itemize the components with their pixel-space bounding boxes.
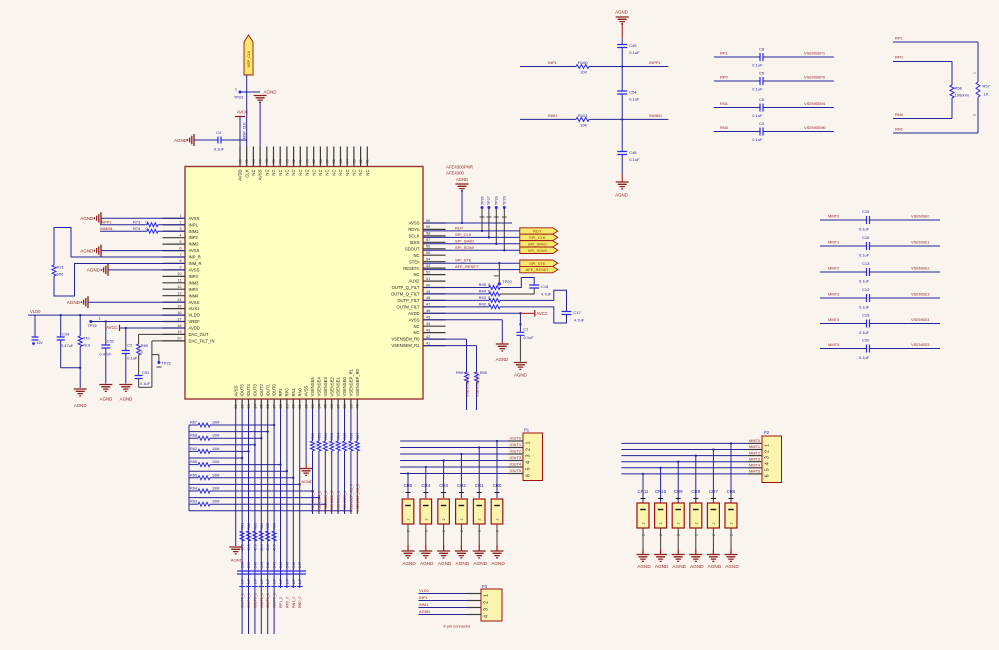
svg-text:2: 2 (484, 601, 490, 604)
wire pin31 RN0 column (299, 410, 301, 589)
capacitor C19 0.1uF row MMT4 (820, 323, 867, 325)
diode CR10 (659, 467, 661, 469)
svg-text:RP1: RP1 (720, 51, 729, 56)
svg-text:C39: C39 (247, 562, 251, 569)
svg-text:C16: C16 (862, 235, 870, 240)
wire VLD0 to P3 pin 1 (419, 593, 468, 595)
svg-text:RN1: RN1 (720, 101, 729, 106)
svg-text:MMT2: MMT2 (749, 450, 760, 455)
svg-text:VLD0: VLD0 (419, 588, 430, 593)
svg-text:MMT5: MMT5 (749, 469, 760, 474)
svg-text:INM3: INM3 (189, 280, 200, 285)
svg-text:R45: R45 (479, 282, 487, 287)
svg-text:C42: C42 (266, 562, 270, 569)
svg-text:RN1_0: RN1_0 (292, 597, 296, 608)
svg-text:1nF: 1nF (253, 579, 257, 585)
svg-text:AFE_RESET: AFE_RESET (526, 267, 550, 272)
svg-text:44: 44 (426, 322, 430, 326)
svg-text:TP28: TP28 (495, 196, 499, 205)
svg-text:VSENSE0: VSENSE0 (911, 214, 930, 219)
resistor R98 0 on VSENSEM_R1 (423, 345, 477, 347)
svg-text:20: 20 (177, 337, 181, 341)
svg-text:VSENSE2: VSENSE2 (911, 266, 930, 271)
svg-text:AUX1: AUX1 (189, 306, 201, 311)
svg-text:78: 78 (252, 159, 256, 163)
svg-text:49.9: 49.9 (241, 544, 245, 551)
svg-text:47: 47 (426, 303, 430, 307)
resistor R58 100ohm between RP0 and RN0 (951, 62, 953, 86)
svg-text:AVDD: AVDD (238, 170, 243, 181)
svg-text:1nF: 1nF (266, 579, 270, 585)
svg-text:C38: C38 (241, 562, 245, 569)
svg-text:MMT1: MMT1 (828, 240, 840, 245)
resistor R69 0 and capacitor C51 0.1uF loop on DAC pins (139, 333, 185, 335)
svg-text:72: 72 (292, 159, 296, 163)
svg-text:VSENSE4: VSENSE4 (317, 377, 322, 397)
svg-text:49.9: 49.9 (273, 544, 277, 551)
svg-text:CR1: CR1 (475, 483, 484, 488)
svg-text:10M: 10M (212, 434, 219, 438)
svg-text:VSENSE3: VSENSE3 (323, 377, 328, 397)
ground AGND below C1 (514, 363, 527, 370)
svg-text:10M: 10M (212, 421, 219, 425)
svg-text:27: 27 (273, 404, 277, 408)
svg-text:RN0: RN0 (720, 125, 729, 130)
svg-text:6: 6 (526, 474, 532, 477)
svg-text:10K: 10K (580, 70, 587, 75)
svg-text:MMT0: MMT0 (749, 438, 761, 443)
svg-text:0.1uF: 0.1uF (752, 137, 763, 142)
svg-text:1nF: 1nF (279, 579, 283, 585)
svg-text:VSENSE1: VSENSE1 (336, 377, 341, 397)
svg-text:63: 63 (352, 159, 356, 163)
svg-text:OUTM_FILT: OUTM_FILT (397, 305, 420, 310)
svg-text:INM1: INM1 (189, 229, 200, 234)
wire pin 60 AVSS rail (423, 222, 512, 224)
svg-text:61: 61 (366, 159, 370, 163)
wire AGND to P3 pin 4 (419, 614, 468, 616)
wire ladder row (189, 510, 352, 512)
wire AFE_RESET pin 53 (423, 269, 520, 271)
capacitor C34 0.47uF (60, 315, 62, 336)
wire MSP_CLK net vertical to pin 79 (246, 75, 248, 147)
svg-text:2: 2 (424, 519, 428, 521)
svg-text:IOUT2_1: IOUT2_1 (260, 593, 264, 608)
wire pin25 IOUT2 column (260, 410, 262, 635)
svg-text:C1: C1 (523, 327, 529, 332)
ground AGND below CR8 (689, 555, 702, 562)
svg-text:19: 19 (177, 330, 181, 334)
svg-text:RP1: RP1 (895, 36, 904, 41)
ground AGND below CR5 (402, 551, 415, 558)
svg-text:55: 55 (426, 251, 430, 255)
svg-text:VSENSE1_1: VSENSE1_1 (337, 491, 341, 512)
svg-text:AFE4300: AFE4300 (446, 171, 465, 176)
ground AGND below C52 (99, 385, 112, 392)
svg-text:AGND: AGND (637, 564, 651, 569)
svg-text:RP0: RP0 (285, 388, 290, 397)
wire pin23 IOUT4 column (248, 410, 250, 635)
resistor R70 49.9 (79, 315, 81, 336)
svg-text:R69: R69 (141, 343, 148, 348)
svg-text:2: 2 (677, 523, 681, 525)
svg-text:RN1: RN1 (291, 387, 296, 396)
svg-text:R92: R92 (324, 433, 328, 440)
svg-text:33: 33 (311, 404, 315, 408)
svg-text:CR3: CR3 (439, 483, 448, 488)
svg-text:SDIN: SDIN (409, 240, 419, 245)
svg-text:AGND: AGND (419, 609, 430, 614)
capacitor C48 0.1uF (617, 152, 627, 155)
svg-text:4: 4 (179, 234, 181, 238)
svg-text:2: 2 (478, 519, 482, 521)
wire IOUT1 to P1 pin 2 (400, 447, 508, 449)
wire SPI_SOMI (423, 249, 520, 251)
svg-text:C19: C19 (862, 313, 870, 318)
capacitor C15 0.1uF row MMT0 (820, 219, 867, 221)
svg-text:C51: C51 (142, 370, 149, 375)
capacitor small 16V at far left (34, 315, 36, 336)
wire IOUT3 to P1 pin 4 (400, 460, 508, 462)
svg-text:AGND: AGND (174, 138, 188, 143)
capacitor C6 0.1uF row RN1 (714, 107, 760, 109)
svg-text:60: 60 (426, 219, 430, 223)
svg-text:R85: R85 (266, 523, 270, 530)
test point TP22 (152, 354, 159, 356)
capacitor C17 4.7uF between OUTP_FILT and OUTM_FILT (500, 290, 567, 311)
svg-text:IOUT4: IOUT4 (510, 462, 522, 467)
svg-text:0.47uF: 0.47uF (100, 352, 113, 357)
svg-text:77: 77 (259, 159, 263, 163)
svg-text:TP15: TP15 (87, 323, 96, 328)
capacitor C5 0.1uF row RP0 (714, 80, 760, 82)
svg-text:58: 58 (426, 232, 430, 236)
svg-text:AGND: AGND (690, 564, 704, 569)
svg-text:36: 36 (330, 404, 334, 408)
wire pin30 RN1 column (292, 410, 294, 589)
svg-text:4: 4 (765, 462, 771, 465)
ground AGND below CR6 (725, 555, 738, 562)
svg-text:AFE4300PNR: AFE4300PNR (446, 165, 473, 170)
svg-text:AVCC: AVCC (106, 325, 117, 330)
svg-text:INM_R: INM_R (189, 261, 202, 266)
svg-text:CR10: CR10 (655, 489, 667, 494)
wire AVCC to pin 80 (239, 117, 241, 147)
svg-text:C5: C5 (759, 71, 765, 76)
wire pin29 RP0 column (286, 410, 288, 589)
wire MMT1 to P2 pin 2 (621, 449, 748, 451)
wire INM1 row with resistor R101 10K and net INMM1 (621, 118, 623, 120)
svg-text:21: 21 (234, 404, 238, 408)
svg-text:VSENSE1: VSENSE1 (911, 240, 930, 245)
svg-text:VSENSEM0_0: VSENSEM0_0 (475, 372, 479, 397)
svg-text:TP23: TP23 (234, 95, 243, 100)
svg-text:6: 6 (765, 474, 771, 477)
capacitor C54 0.1uF (617, 91, 627, 94)
wire MMT4 to P2 pin 5 (621, 467, 748, 469)
svg-text:15: 15 (177, 304, 181, 308)
svg-text:0.1uF: 0.1uF (629, 157, 640, 162)
IC left pin stubs, numbers and names pins 1-20 (163, 217, 186, 219)
svg-text:R43: R43 (479, 295, 487, 300)
svg-text:49.9: 49.9 (260, 544, 264, 551)
svg-text:16V: 16V (37, 341, 44, 345)
wire pin 45 AVSS to ground (423, 319, 502, 321)
svg-text:C34: C34 (62, 332, 70, 337)
svg-text:0.1uF: 0.1uF (752, 113, 763, 118)
svg-text:0.1uF: 0.1uF (859, 279, 870, 284)
svg-text:AGND: AGND (438, 561, 452, 566)
svg-text:AVSS: AVSS (233, 385, 238, 396)
svg-text:INM2: INM2 (189, 242, 200, 247)
svg-text:R91: R91 (317, 433, 321, 440)
svg-text:DAC_FILT_IN: DAC_FILT_IN (189, 339, 215, 344)
svg-text:42: 42 (426, 335, 430, 339)
ground AGND below CR7 (707, 555, 720, 562)
svg-text:64: 64 (346, 159, 350, 163)
svg-text:1: 1 (973, 72, 977, 74)
svg-text:AFE_RESET: AFE_RESET (455, 264, 479, 269)
svg-text:18: 18 (177, 324, 181, 328)
svg-text:C2: C2 (127, 343, 132, 348)
svg-text:INP3: INP3 (189, 274, 199, 279)
svg-text:CR6: CR6 (727, 489, 736, 494)
svg-text:CR5: CR5 (404, 483, 413, 488)
svg-text:INM1: INM1 (548, 113, 558, 118)
svg-text:MMT3: MMT3 (749, 456, 760, 461)
svg-text:RESETn: RESETn (403, 266, 420, 271)
ground AGND below CR1 (473, 551, 486, 558)
svg-text:C45: C45 (285, 562, 289, 569)
wire IOUT0 to P1 pin 1 (400, 440, 508, 442)
capacitor C1 0.1uF (519, 313, 521, 332)
svg-text:C43: C43 (273, 562, 277, 569)
svg-text:1: 1 (765, 444, 771, 447)
svg-text:CR7: CR7 (709, 489, 718, 494)
svg-text:RDYn: RDYn (408, 227, 420, 232)
ground AGND below CR4 (419, 551, 432, 558)
svg-text:2: 2 (659, 523, 663, 525)
svg-text:R73: R73 (133, 220, 141, 225)
svg-text:2: 2 (765, 450, 771, 453)
svg-text:0.1uF: 0.1uF (214, 147, 225, 152)
svg-text:3: 3 (526, 455, 532, 458)
svg-text:NC: NC (311, 170, 316, 176)
svg-text:46: 46 (426, 309, 430, 313)
svg-text:IOUT3: IOUT3 (510, 455, 521, 460)
test point TP20 on SPI_STE (498, 262, 500, 264)
svg-text:32: 32 (305, 404, 309, 408)
svg-text:AGND: AGND (615, 193, 628, 198)
svg-text:R101: R101 (578, 113, 588, 118)
IC top pin stubs, numbers and names pins 80-61 (239, 147, 241, 167)
svg-text:C52: C52 (107, 339, 114, 344)
svg-text:VSENSEP_R1: VSENSEP_R1 (349, 368, 354, 396)
svg-text:AGND: AGND (80, 248, 94, 253)
svg-text:5: 5 (765, 468, 771, 471)
svg-text:2: 2 (526, 448, 532, 451)
wire AGND to pin60 AVSS rail (461, 190, 463, 223)
svg-text:1: 1 (99, 317, 101, 321)
svg-text:49: 49 (426, 290, 430, 294)
svg-text:600: 600 (57, 272, 64, 277)
ground AGND below CR2 (455, 551, 468, 558)
svg-text:30: 30 (292, 404, 296, 408)
diode CR8 (695, 454, 697, 456)
resistor R96 on VSENSEP_R1 column (350, 410, 352, 442)
wire MMT3 to P2 pin 4 (621, 461, 748, 463)
resistor R93 on VSENSE2 column (331, 410, 333, 442)
svg-text:C9: C9 (759, 121, 765, 126)
svg-text:0.1uF: 0.1uF (859, 305, 870, 310)
svg-text:37: 37 (337, 404, 341, 408)
svg-text:RN0: RN0 (895, 112, 904, 117)
svg-text:P2: P2 (764, 430, 770, 435)
power symbol AVCC on pin 46 AVDD (423, 312, 520, 314)
ground AGND below CR11 (637, 555, 650, 562)
ground AGND below CR10 (654, 555, 667, 562)
svg-text:54: 54 (426, 258, 430, 262)
svg-text:5: 5 (179, 240, 181, 244)
svg-text:NC: NC (413, 324, 419, 329)
wire ladder row (189, 483, 300, 485)
svg-text:1nF: 1nF (292, 579, 296, 585)
svg-text:R63: R63 (190, 500, 197, 504)
resistor R95 on VSENSE0 column (344, 410, 346, 442)
svg-text:13: 13 (177, 292, 181, 296)
svg-text:AGND: AGND (456, 177, 468, 182)
svg-text:28: 28 (279, 404, 283, 408)
svg-text:R83: R83 (253, 523, 257, 530)
wire SPI_CLK (423, 236, 520, 238)
capacitor row bottom plates (239, 586, 245, 588)
svg-text:0.1uF: 0.1uF (752, 87, 763, 92)
svg-text:1: 1 (484, 594, 490, 597)
svg-text:DAC_OUT: DAC_OUT (189, 332, 209, 337)
svg-text:C40: C40 (253, 562, 257, 569)
IC bottom pin stubs, numbers and names pins 21-40 (235, 399, 237, 410)
svg-text:RN1: RN1 (895, 127, 904, 132)
svg-text:10: 10 (177, 272, 181, 276)
svg-text:29: 29 (285, 404, 289, 408)
svg-text:NC: NC (251, 170, 256, 176)
svg-text:AVSS: AVSS (409, 221, 420, 226)
svg-text:R66: R66 (190, 460, 197, 464)
svg-text:AGND: AGND (231, 558, 243, 563)
wire pin1 AVSS (101, 217, 185, 219)
wire ladder row (189, 497, 319, 499)
svg-text:67: 67 (326, 159, 330, 163)
svg-text:MSP_CLK: MSP_CLK (247, 50, 251, 67)
svg-text:AGND: AGND (672, 564, 686, 569)
wire IOUT5 to P1 pin 6 (400, 473, 508, 475)
capacitor C20 0.1uF row MMT5 (820, 348, 867, 350)
svg-text:R100: R100 (578, 60, 588, 65)
svg-text:VLDO: VLDO (189, 313, 201, 318)
svg-text:VSENSE3: VSENSE3 (911, 292, 930, 297)
svg-text:3: 3 (765, 456, 771, 459)
svg-text:AVSS: AVSS (304, 385, 309, 396)
svg-text:AGND: AGND (615, 10, 628, 15)
svg-text:IOUT4: IOUT4 (246, 383, 251, 396)
svg-text:AGND: AGND (87, 268, 101, 273)
svg-text:49.9: 49.9 (253, 544, 257, 551)
wire MMT2 to P2 pin 3 (621, 455, 748, 457)
svg-text:10M: 10M (212, 500, 219, 504)
svg-text:45: 45 (426, 316, 430, 320)
svg-text:RP0: RP0 (895, 55, 904, 60)
svg-text:NC: NC (331, 170, 336, 176)
svg-text:IOUT0: IOUT0 (272, 383, 277, 396)
svg-text:TP29: TP29 (503, 196, 507, 205)
svg-text:R68: R68 (190, 434, 197, 438)
capacitor C18 4.7uF between OUTP_Q_FILT and OUTM_Q_FILT (500, 278, 534, 288)
net label INMM1, resistor R74 0 on pin 3 (100, 230, 147, 232)
svg-text:INPP1: INPP1 (649, 60, 661, 65)
capacitor C16 0.1uF row MMT1 (820, 245, 867, 247)
svg-text:IOUT5: IOUT5 (240, 383, 245, 396)
svg-text:31: 31 (298, 404, 302, 408)
resistor R92 on VSENSE3 column (324, 410, 326, 442)
svg-text:0.1uF: 0.1uF (859, 355, 870, 360)
svg-text:AVSS: AVSS (189, 300, 200, 305)
wire pin22 IOUT5 column (241, 410, 243, 635)
svg-text:VLD0: VLD0 (30, 309, 41, 314)
svg-text:R86: R86 (273, 523, 277, 530)
svg-text:AGND: AGND (301, 479, 313, 484)
svg-text:26: 26 (266, 404, 270, 408)
svg-text:OUTP_FILT: OUTP_FILT (397, 298, 420, 303)
svg-text:VSENSEP1: VSENSEP1 (804, 51, 826, 56)
svg-text:IOUT5_1: IOUT5_1 (241, 593, 245, 608)
svg-text:38: 38 (343, 404, 347, 408)
svg-text:CR8: CR8 (691, 489, 700, 494)
svg-text:10M: 10M (212, 460, 219, 464)
svg-text:IOUT3_1: IOUT3_1 (253, 593, 257, 608)
svg-text:RP0: RP0 (720, 75, 729, 80)
svg-text:2: 2 (642, 523, 646, 525)
svg-text:2: 2 (973, 114, 977, 116)
svg-text:OUTP_Q_FILT: OUTP_Q_FILT (392, 285, 420, 290)
svg-text:74: 74 (279, 159, 283, 163)
svg-text:1: 1 (179, 214, 181, 218)
connector tag SPI_SOMI (520, 247, 558, 253)
svg-text:R90: R90 (311, 433, 315, 440)
svg-text:CR4: CR4 (421, 483, 430, 488)
svg-text:1: 1 (235, 88, 237, 92)
svg-text:C44: C44 (279, 562, 283, 569)
capacitor C4 0.1uF (194, 139, 218, 141)
svg-text:0.1uF: 0.1uF (629, 97, 640, 102)
svg-text:SPI_CLK: SPI_CLK (529, 235, 546, 240)
svg-text:SPI_SIMO: SPI_SIMO (455, 238, 474, 243)
svg-text:AVSS: AVSS (409, 317, 420, 322)
wire MMT0 to P2 pin 1 (621, 442, 748, 444)
svg-text:STEn: STEn (409, 259, 420, 264)
resistor R57 1K between RP1 and RN1 (977, 42, 979, 82)
svg-text:R58: R58 (955, 86, 963, 91)
svg-text:C4: C4 (216, 130, 222, 135)
svg-text:6: 6 (179, 246, 181, 250)
svg-text:AGND: AGND (74, 403, 87, 408)
capacitor C12 0.1uF row MMT3 (820, 297, 867, 299)
svg-text:80: 80 (238, 159, 242, 163)
svg-text:VSENSE2_1: VSENSE2_1 (330, 491, 334, 512)
svg-text:AGND: AGND (100, 397, 113, 402)
svg-text:100ohm: 100ohm (955, 93, 970, 98)
ground AGND bottom of INP chain (616, 182, 629, 189)
svg-text:AGND: AGND (80, 216, 94, 221)
